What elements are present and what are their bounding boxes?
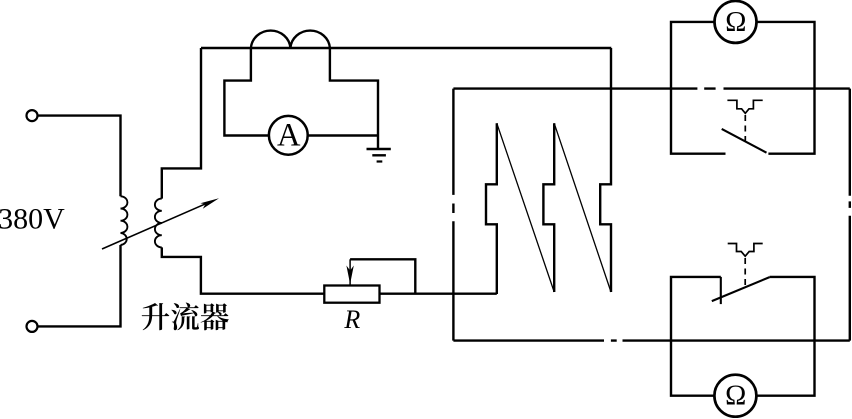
contact FR-1 blade (normally closed, shown open) — [722, 129, 767, 153]
contact FR-1 actuator (release symbol) — [727, 100, 762, 113]
current transformer TA winding (humps) — [251, 31, 330, 48]
thermal relay boundary: top (dash-dot) — [453, 87, 849, 89]
terminal X1 (top supply terminal) — [27, 110, 38, 121]
thermal relay boundary: right (dash-dot) — [849, 89, 851, 341]
svg-text:380V: 380V — [0, 203, 65, 236]
wire: CT secondary right leg — [330, 49, 378, 149]
heater element FR-2 — [543, 123, 554, 292]
variac T1 primary winding — [121, 196, 128, 245]
rheostat wiper arrow — [346, 259, 353, 285]
contact FR-2 fixed post — [720, 277, 722, 304]
wire: top rail (CT primary) — [201, 47, 611, 49]
wire: ohmmeter PΩ2 right branch — [756, 277, 814, 396]
wire: ohmmeter PΩ2 left branch — [671, 277, 721, 396]
wire: variac secondary bottom to resistor R — [162, 247, 325, 293]
heater element FR-3 — [600, 48, 611, 292]
thermal relay boundary: left (dash-dot) — [452, 89, 454, 341]
ammeter PA — [269, 116, 308, 155]
contact FR-2 blade — [712, 277, 770, 301]
heater FR-2 zigzag diagonal — [554, 123, 611, 292]
contact FR-2 actuator (release symbol) — [728, 244, 763, 257]
svg-text:Ω: Ω — [725, 7, 746, 38]
wire: CT secondary left leg to ammeter — [224, 49, 269, 136]
wire: ohmmeter PΩ1 left branch — [671, 22, 726, 154]
wire: wiper tap loop — [350, 259, 415, 293]
svg-text:R: R — [343, 305, 360, 334]
label 升流器 — [142, 303, 229, 331]
thermal relay boundary: bottom (dash-dot) — [453, 339, 849, 341]
wire: bottom terminal to variac primary — [38, 245, 121, 326]
wire: ohmmeter PΩ1 right branch — [757, 22, 815, 154]
ohmmeter PΩ2 (bottom) — [714, 375, 756, 417]
wire: resistor R to heater elements — [380, 293, 497, 295]
svg-text:Ω: Ω — [725, 381, 746, 412]
heater element FR-1 — [486, 123, 497, 294]
arrow: variac adjustment — [102, 198, 219, 249]
ground — [367, 149, 391, 162]
terminal X2 (bottom supply terminal) — [27, 321, 38, 332]
wire: variac secondary top to CT primary rail — [162, 48, 201, 199]
svg-text:A: A — [277, 118, 301, 154]
heater FR-1 zigzag diagonal — [497, 123, 554, 292]
wire: top terminal to variac primary — [38, 116, 121, 197]
resistor R (rheostat body) — [324, 286, 379, 303]
ohmmeter PΩ1 (top) — [715, 1, 757, 43]
contact FR-2 linkage (dashed) — [744, 258, 746, 287]
contact FR-1 linkage (dashed) — [744, 115, 746, 141]
variac T1 secondary winding — [155, 199, 162, 248]
wire: ammeter to ground node — [307, 134, 378, 136]
